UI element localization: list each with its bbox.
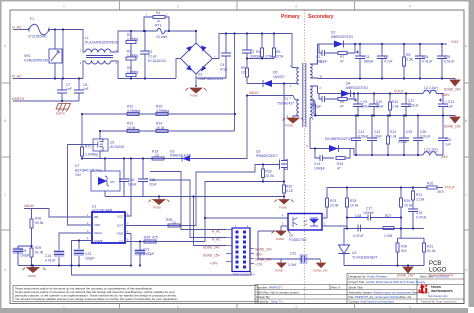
svg-text:R33: R33 [350, 199, 356, 203]
svg-text:3: 3 [295, 5, 297, 9]
svg-text:COMP: COMP [94, 239, 103, 243]
wire U1 bottom gnd rail [18, 265, 131, 267]
wire SGND_24V rail [318, 79, 456, 81]
svg-text:C28: C28 [444, 55, 450, 59]
svg-text:1: 1 [63, 5, 65, 9]
resistor R6 [403, 44, 406, 79]
wire SGND_15V rail [314, 116, 455, 118]
svg-text:3.3k: 3.3k [406, 58, 413, 62]
svg-text:47: 47 [340, 60, 344, 64]
svg-text:PGND: PGND [153, 206, 161, 210]
svg-text:22uF: 22uF [149, 183, 157, 187]
wire U1 OUT pin [131, 165, 278, 226]
pin number texts [80, 15, 326, 229]
wire U1 pin1 VALM [24, 209, 86, 218]
wire staircase H_AC [150, 172, 226, 230]
inductor L1 common-mode choke [85, 49, 114, 64]
svg-text:0.47uF: 0.47uF [353, 234, 364, 238]
svg-text:C15: C15 [149, 178, 155, 182]
svg-text:BZX384C15LT1G: BZX384C15LT1G [75, 169, 102, 173]
svg-text:270k: 270k [276, 55, 284, 59]
wire fb bottom [344, 265, 424, 267]
U1 pin stubs [86, 217, 131, 242]
snubber R15 [336, 149, 350, 160]
capacitor C8 [74, 79, 84, 102]
svg-text:ON: ON [110, 180, 115, 184]
capacitor C29 [399, 116, 409, 156]
optocoupler U2 [288, 214, 322, 231]
svg-text:MBRS320T3G: MBRS320T3G [331, 35, 353, 39]
svg-text:R15: R15 [337, 162, 343, 166]
svg-text:Q1: Q1 [110, 141, 115, 145]
thermistor RT1 bypass resistor R1 [144, 16, 169, 32]
svg-text:C17: C17 [366, 207, 372, 211]
svg-text:INSTRUMENTS: INSTRUMENTS [431, 289, 453, 293]
wire -15V rail [354, 154, 423, 156]
resistor R32 [262, 165, 265, 182]
wire snubber mid [247, 58, 274, 60]
title block [255, 274, 464, 304]
capacitor C7 [57, 79, 67, 102]
PGND at R20 [275, 197, 294, 205]
U1 pin names [94, 215, 123, 244]
svg-text:PGND: PGND [28, 274, 36, 278]
svg-text:+: + [146, 177, 148, 181]
svg-text:1.0Meg: 1.0Meg [127, 70, 138, 74]
svg-text:R24: R24 [404, 199, 410, 203]
svg-text:EARTH: EARTH [12, 97, 25, 101]
svg-text:120: 120 [241, 71, 247, 75]
capacitor C15 [138, 159, 148, 197]
svg-text:910: 910 [401, 249, 407, 253]
svg-text:L2 2.2uH: L2 2.2uH [424, 86, 438, 90]
PGND at aux [283, 118, 304, 123]
wire fuse to choke [48, 30, 85, 53]
svg-text:1.00Meg: 1.00Meg [85, 153, 98, 157]
svg-text:R8: R8 [340, 100, 344, 104]
capacitor C1 [140, 31, 150, 79]
svg-text:47: 47 [340, 105, 344, 109]
transformer T1 aux winding [293, 100, 299, 119]
capacitor C30 [413, 116, 423, 156]
capacitor C32 [438, 116, 448, 156]
svg-text:Secondary: Secondary [308, 14, 334, 20]
transistor Q1 [93, 131, 108, 159]
svg-text:R25: R25 [144, 236, 150, 240]
svg-text:0.1uF: 0.1uF [148, 55, 157, 59]
net labels maroon [12, 26, 462, 279]
svg-text:47: 47 [337, 167, 341, 171]
resistor R30 [396, 229, 424, 266]
resistor R24 [400, 188, 403, 229]
svg-text:3721250081: 3721250081 [28, 35, 47, 39]
svg-text:10.0k: 10.0k [266, 174, 275, 178]
svg-text:C16: C16 [128, 178, 134, 182]
capacitor C27 [401, 94, 411, 116]
svg-text:10uF: 10uF [376, 105, 384, 109]
svg-text:3300pF: 3300pF [250, 55, 262, 59]
svg-text:0.56uF: 0.56uF [358, 135, 369, 139]
svg-text:F1: F1 [30, 17, 34, 21]
varistor V1 [49, 30, 62, 79]
svg-text:1uF: 1uF [445, 143, 451, 147]
svg-text:10.0k: 10.0k [404, 204, 413, 208]
svg-text:R20: R20 [286, 185, 292, 189]
diode D6 [329, 145, 339, 152]
svg-text:T1: T1 [284, 97, 288, 101]
svg-text:0.15: 0.15 [286, 189, 293, 193]
svg-text:R19: R19 [156, 105, 162, 109]
svg-text:PGND: PGND [279, 206, 287, 210]
svg-text:C32: C32 [445, 138, 451, 142]
wire VAUX [247, 96, 295, 100]
svg-text:3: 3 [295, 305, 297, 309]
wire U1 pin4 [72, 241, 252, 276]
svg-text:C6: C6 [384, 55, 388, 59]
svg-text:OUT: OUT [117, 224, 123, 228]
svg-text:R17: R17 [85, 145, 91, 149]
resistor R16 [427, 186, 437, 189]
IC U1 [92, 212, 125, 243]
wire rail to bridge [169, 31, 196, 44]
capacitor C24 [54, 250, 65, 257]
svg-text:1nF: 1nF [83, 87, 89, 91]
svg-text:Powered By Texas Instruments: Powered By Texas Instruments [421, 300, 457, 304]
svg-text:C19: C19 [416, 211, 422, 215]
svg-text:H_AC: H_AC [12, 26, 22, 30]
wire HV sense row 2 [100, 130, 235, 132]
svg-text:475: 475 [152, 236, 158, 240]
resistor R25 [144, 240, 156, 243]
svg-text:10uF: 10uF [374, 135, 382, 139]
svg-text:D6 MBRS320T3G: D6 MBRS320T3G [325, 137, 353, 141]
svg-text:AC01625: AC01625 [110, 145, 124, 149]
svg-text:C13: C13 [374, 130, 380, 134]
svg-text:UCC28C44M: UCC28C44M [92, 209, 112, 213]
capacitor C31 [437, 94, 448, 116]
resistor R3 [126, 44, 136, 61]
connector pins [236, 231, 247, 269]
svg-text:C12: C12 [358, 130, 364, 134]
svg-text:PGND: PGND [285, 124, 293, 128]
svg-text:1.0Meg: 1.0Meg [127, 37, 138, 41]
svg-text:C24: C24 [45, 254, 51, 258]
svg-text:0.01uF: 0.01uF [398, 140, 408, 144]
svg-text:C22: C22 [290, 252, 296, 256]
svg-text:3.3uF: 3.3uF [128, 183, 137, 187]
wire bridge to PGND [195, 74, 197, 86]
capacitor C18 [358, 225, 361, 232]
svg-text:4.7uF: 4.7uF [384, 60, 393, 64]
PCB LOGO text [429, 261, 447, 274]
resistor R4a [126, 60, 136, 79]
svg-text:R27: R27 [385, 214, 391, 218]
transformer T1 secondary winding 2 [310, 86, 318, 116]
svg-text:VOUT: VOUT [445, 186, 456, 190]
svg-text:R16: R16 [427, 182, 433, 186]
capacitor C23 [74, 249, 85, 256]
svg-text:49.9: 49.9 [437, 190, 444, 194]
svg-text:C27: C27 [408, 99, 414, 103]
svg-text:C21: C21 [143, 248, 149, 252]
resistor R10 [389, 94, 392, 116]
wire comp row [327, 226, 424, 229]
svg-text:+15V: +15V [441, 93, 450, 97]
svg-text:100uF: 100uF [361, 105, 371, 109]
SGND_15V symbol [450, 117, 460, 123]
svg-text:D2: D2 [331, 31, 335, 35]
svg-text:1.0Meg: 1.0Meg [127, 54, 138, 58]
svg-text:R1: R1 [156, 11, 160, 15]
svg-text:C2: C2 [250, 50, 254, 54]
wire N_AC to choke [13, 61, 85, 79]
wire HV sense row 1 [82, 113, 235, 115]
resistor R19 [156, 113, 168, 116]
resistor R20 [283, 182, 286, 197]
svg-text:PCB: PCB [429, 261, 441, 267]
svg-text:1: 1 [63, 305, 65, 309]
svg-text:D5: D5 [273, 71, 277, 75]
resistor R18 [152, 157, 164, 160]
bridge diodes [186, 46, 207, 72]
svg-text:2KBP08M-E4/51: 2KBP08M-E4/51 [198, 77, 223, 81]
wire bus sense drop [234, 34, 236, 132]
svg-text:C29: C29 [406, 130, 412, 134]
svg-text:SGND_24V: SGND_24V [255, 248, 273, 252]
svg-text:Drawn By:: Drawn By: [257, 295, 271, 299]
diode D5 [263, 80, 272, 87]
svg-text:+24V: +24V [450, 40, 459, 44]
svg-text:+ C5: + C5 [362, 55, 369, 59]
VOUT labels [394, 90, 456, 190]
svg-text:R14: R14 [156, 122, 162, 126]
svg-text:91.0k: 91.0k [427, 249, 436, 253]
svg-text:L3 2.2uH: L3 2.2uH [424, 148, 438, 152]
connector left stubs [226, 230, 232, 262]
resistor R13 [127, 130, 139, 133]
capacitor C2 snubber [242, 34, 252, 59]
PGND at U1 [23, 266, 46, 273]
capacitor C6 [377, 44, 387, 79]
resistor R29 [30, 246, 33, 266]
svg-text:0.01uF: 0.01uF [444, 60, 455, 64]
svg-text:1.0k: 1.0k [392, 105, 399, 109]
inductor L3 [423, 152, 443, 155]
svg-text:Sheet Title:: Sheet Title: [349, 286, 364, 290]
svg-text:15.0k: 15.0k [127, 126, 136, 130]
transistor Q2 [278, 84, 288, 182]
svg-text:R32: R32 [266, 170, 272, 174]
svg-text:1uF: 1uF [447, 105, 453, 109]
resistor R17 [81, 147, 84, 159]
resistor R33 [346, 188, 349, 229]
wire U1 pin3 [59, 233, 86, 266]
connector J1 [232, 228, 250, 272]
svg-text:SGND_15V: SGND_15V [444, 125, 462, 129]
svg-text:VDD: VDD [94, 223, 100, 227]
svg-text:+24V: +24V [210, 262, 218, 266]
svg-text:D4: D4 [346, 82, 350, 86]
svg-text:DBA221-E3W: DBA221-E3W [170, 154, 192, 158]
capacitor C19 [408, 209, 418, 229]
svg-text:2: 2 [177, 305, 179, 309]
svg-text:Assembly Variant: Variant name: Assembly Variant: Variant name not inter… [349, 291, 430, 295]
svg-text:PGND: PGND [275, 269, 283, 273]
transformer T1 secondary winding 3 [310, 104, 316, 149]
svg-text:10.0k: 10.0k [330, 204, 339, 208]
svg-text:D7: D7 [75, 164, 79, 168]
svg-text:100pF: 100pF [85, 257, 95, 261]
svg-text:0.01uF: 0.01uF [408, 104, 419, 108]
svg-text:R4: R4 [256, 50, 260, 54]
svg-text:0.01uF: 0.01uF [45, 259, 56, 263]
inductor L2 [423, 90, 443, 93]
svg-text:L1: L1 [85, 36, 89, 40]
svg-text:R31: R31 [427, 245, 433, 249]
svg-text:Contact: http://www.ti.com/sup: Contact: http://www.ti.com/support [349, 300, 395, 304]
svg-text:VR1: VR1 [24, 54, 31, 58]
svg-text:750342437: 750342437 [277, 102, 294, 106]
svg-text:SGND_24V: SGND_24V [203, 246, 221, 250]
svg-text:1nF: 1nF [66, 87, 72, 91]
svg-text:SGND_15V: SGND_15V [203, 254, 221, 258]
svg-text:TSW-112-07-G-D: TSW-112-07-G-D [233, 273, 255, 277]
svg-text:V14E300PK295: V14E300PK295 [24, 59, 48, 63]
connector right stubs [250, 249, 254, 264]
svg-text:C18: C18 [355, 214, 361, 218]
svg-text:You should completely validate: You should completely validate and test … [15, 297, 178, 301]
resistor R23 [326, 188, 329, 219]
svg-text:H_AC: H_AC [212, 230, 221, 234]
svg-text:1.0k: 1.0k [390, 135, 397, 139]
transformer core [303, 63, 306, 127]
svg-text:4: 4 [409, 305, 411, 309]
capacitor C12 [351, 116, 361, 156]
svg-text:DR: DR [94, 215, 98, 219]
wire staircase SGND [194, 197, 227, 246]
svg-text:1000pF: 1000pF [310, 105, 322, 109]
svg-text:100pF: 100pF [20, 254, 30, 258]
svg-text:Designed for: Public Release: Designed for: Public Release [349, 275, 388, 279]
svg-text:D1: D1 [198, 73, 202, 77]
svg-text:C10: C10 [376, 100, 382, 104]
wire varistor second leg [62, 30, 64, 79]
wire H_AC to fuse [13, 29, 27, 31]
snubber R7 [338, 44, 355, 55]
svg-text:10: 10 [172, 221, 176, 225]
resistor R2 [126, 31, 136, 44]
svg-text:+ C31: + C31 [445, 100, 454, 104]
svg-text:Rev: A: Rev: A [332, 286, 341, 290]
svg-text:U2: U2 [289, 234, 293, 238]
diode D2 [334, 41, 344, 48]
wire opto emitter to PGND [205, 217, 281, 219]
resistor R28 [168, 224, 180, 227]
capacitor C10 [369, 94, 379, 116]
svg-text:Size: A4: Size: A4 [400, 295, 411, 299]
svg-text:20: 20 [157, 19, 161, 23]
svg-text:Number: PMP9757: Number: PMP9757 [257, 286, 283, 290]
svg-text:SGND_15V: SGND_15V [255, 258, 273, 262]
svg-text:GND: GND [117, 232, 123, 236]
wire +24V rail [318, 43, 448, 45]
wire CS to shunt [205, 182, 284, 242]
capacitor C26 [415, 44, 425, 79]
diode D4 [341, 90, 351, 97]
ground symbols [23, 80, 461, 273]
resistor R27 [383, 227, 394, 230]
zener D7 box [91, 159, 120, 197]
svg-text:10 ohm: 10 ohm [156, 35, 167, 39]
svg-text:C30: C30 [420, 130, 426, 134]
capacitor C9 [353, 94, 363, 116]
svg-text:R30: R30 [401, 245, 407, 249]
resistor R5 [273, 34, 276, 59]
PGND at opto [272, 231, 291, 236]
svg-text:SGND_24V: SGND_24V [313, 269, 328, 273]
thermistor RT1 [144, 28, 169, 33]
svg-text:VOUT: VOUT [394, 90, 405, 94]
svg-text:1000pF: 1000pF [314, 167, 326, 171]
fuse F1 [27, 24, 51, 35]
opto pin stubs [281, 218, 327, 226]
svg-text:R5: R5 [276, 50, 280, 54]
wire opto collector [258, 226, 281, 263]
resistor R31 [423, 238, 426, 265]
svg-text:EARTH: EARTH [56, 112, 65, 116]
svg-text:10: 10 [155, 154, 159, 158]
svg-text:SGND_24V: SGND_24V [444, 88, 462, 92]
capacitor C4 bulk [196, 34, 231, 79]
svg-text:Project Title: AC/DC Multi-Out: Project Title: AC/DC Multi-Output 60W PL… [349, 280, 426, 284]
svg-text:270k: 270k [265, 55, 273, 59]
wire +15V rail [318, 93, 424, 95]
svg-text:VAUX: VAUX [249, 91, 259, 95]
snubber C11 [319, 94, 338, 103]
svg-text:4: 4 [409, 5, 411, 9]
svg-text:Engineer: Jason Tu: Engineer: Jason Tu [257, 300, 283, 304]
svg-text:1000pF: 1000pF [143, 252, 155, 256]
transformer T1 primary winding [295, 68, 299, 85]
svg-text:2.20k: 2.20k [416, 198, 425, 202]
wire VDD rail [82, 96, 247, 159]
svg-text:4.99Meg: 4.99Meg [127, 109, 140, 113]
svg-text:PGND: PGND [276, 237, 284, 241]
wire sense to R17 [81, 114, 83, 147]
transformer T1 secondary winding 1 [310, 44, 318, 79]
svg-text:R10: R10 [392, 100, 398, 104]
svg-text:-15V: -15V [440, 155, 448, 159]
capacitor C17 [347, 215, 401, 221]
wire bridge output to bus [213, 34, 296, 68]
U1 pin numbers [87, 213, 129, 242]
svg-text:47uF: 47uF [220, 68, 228, 72]
resistor R14 [156, 130, 168, 133]
svg-text:C26: C26 [422, 55, 428, 59]
svg-text:10.0k: 10.0k [350, 204, 359, 208]
svg-text:0.47uF: 0.47uF [416, 216, 427, 220]
wire Q1 gate [68, 145, 96, 226]
resistor R21 [412, 188, 415, 210]
SGND_24V symbol [450, 80, 460, 86]
svg-text:PGND: PGND [190, 94, 198, 98]
resistor R4 [261, 34, 264, 59]
svg-text:SAVG: SAVG [94, 231, 103, 235]
svg-text:2: 2 [177, 5, 179, 9]
svg-text:0.01uF: 0.01uF [422, 60, 433, 64]
svg-text:C4: C4 [220, 63, 224, 67]
svg-text:R26: R26 [35, 217, 41, 221]
